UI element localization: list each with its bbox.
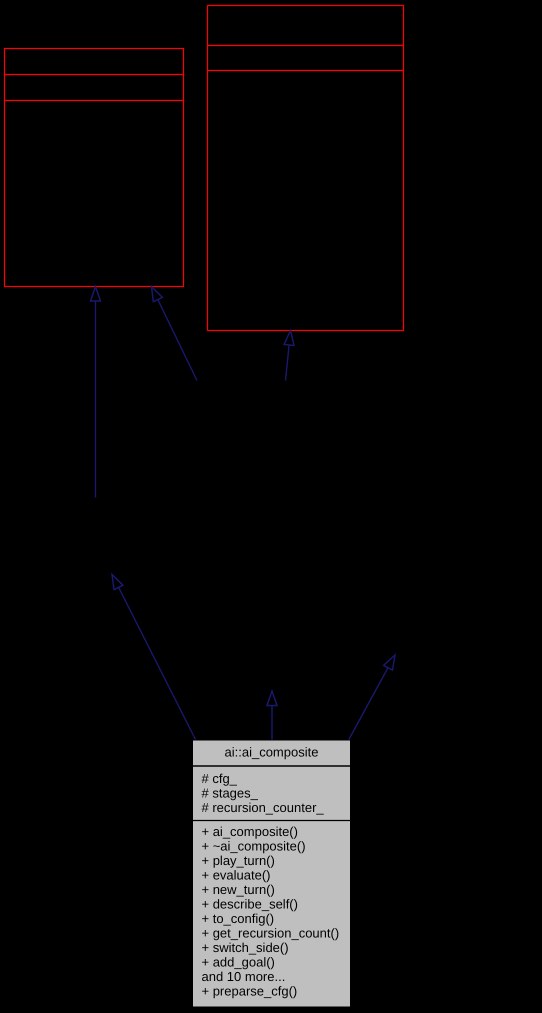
svg-text:+ describe_self(): + describe_self() (202, 897, 298, 912)
class box right (truncated, red) (208, 6, 404, 331)
svg-text:+ ~ai_composite(): + ~ai_composite() (202, 839, 306, 854)
svg-text:# stages_: # stages_ (202, 786, 259, 801)
inheritance arrow D (long diagonal from ai::ai_composite up-left) (112, 575, 196, 741)
svg-text:+ evaluate(): + evaluate() (202, 868, 271, 883)
inheritance arrow C (to right red box) (284, 331, 294, 381)
inheritance arrow B (diagonal, to left red box) (152, 287, 198, 381)
svg-text:+ new_turn(): + new_turn() (202, 882, 275, 897)
svg-text:and 10 more...: and 10 more... (202, 969, 286, 984)
inheritance arrow A (vertical, to left red box) (91, 287, 101, 498)
svg-text:# recursion_counter_: # recursion_counter_ (202, 800, 325, 815)
svg-text:+ preparse_cfg(): + preparse_cfg() (202, 984, 298, 999)
svg-text:+ play_turn(): + play_turn() (202, 853, 275, 868)
attributes (202, 771, 325, 815)
svg-text:+ to_config(): + to_config() (202, 911, 275, 926)
inheritance arrow F (diagonal from ai::ai_composite up-right) (348, 655, 395, 741)
class box left (truncated, red) (5, 49, 184, 287)
svg-text:ai::ai_composite: ai::ai_composite (225, 745, 319, 760)
inheritance arrow E (short vertical from ai::ai_composite) (267, 691, 277, 741)
svg-text:+ switch_side(): + switch_side() (202, 940, 289, 955)
class box ai::ai_composite (gray) (193, 740, 351, 1007)
svg-text:+ add_goal(): + add_goal() (202, 955, 275, 970)
methods (202, 824, 340, 999)
svg-text:+ ai_composite(): + ai_composite() (202, 824, 298, 839)
svg-text:+ get_recursion_count(): + get_recursion_count() (202, 926, 340, 941)
svg-text:# cfg_: # cfg_ (202, 771, 238, 786)
